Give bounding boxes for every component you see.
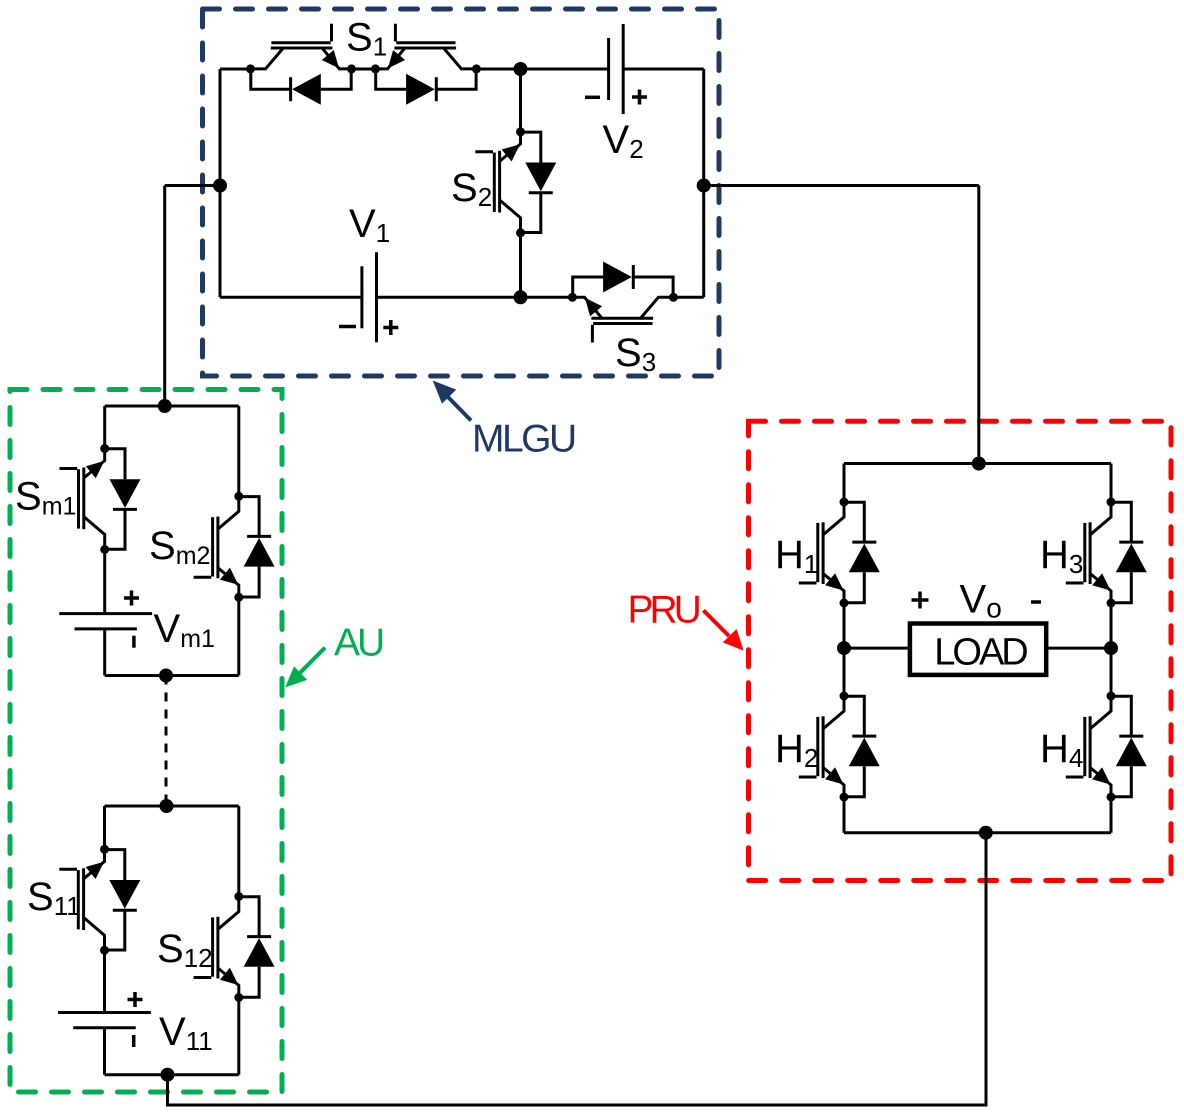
svg-text:S3: S3: [615, 331, 656, 377]
svg-text:S2: S2: [451, 166, 492, 212]
svg-text:H2: H2: [775, 727, 818, 773]
svg-text:PRU: PRU: [628, 589, 700, 632]
svg-text:S12: S12: [157, 927, 213, 973]
svg-text:V11: V11: [159, 1010, 213, 1056]
svg-text:H1: H1: [775, 533, 818, 579]
svg-text:Vo: Vo: [960, 578, 1002, 624]
svg-text:Sm1: Sm1: [15, 475, 76, 521]
svg-text:S1: S1: [346, 16, 387, 62]
svg-text:S11: S11: [27, 875, 81, 921]
svg-text:MLGU: MLGU: [472, 418, 575, 461]
svg-text:Vm1: Vm1: [154, 607, 215, 653]
svg-text:H4: H4: [1040, 727, 1083, 773]
svg-text:V2: V2: [603, 118, 644, 164]
svg-text:H3: H3: [1040, 533, 1083, 579]
svg-text:AU: AU: [334, 622, 383, 665]
svg-text:V1: V1: [349, 202, 390, 248]
svg-text:Sm2: Sm2: [149, 524, 210, 570]
svg-text:LOAD: LOAD: [934, 632, 1027, 674]
